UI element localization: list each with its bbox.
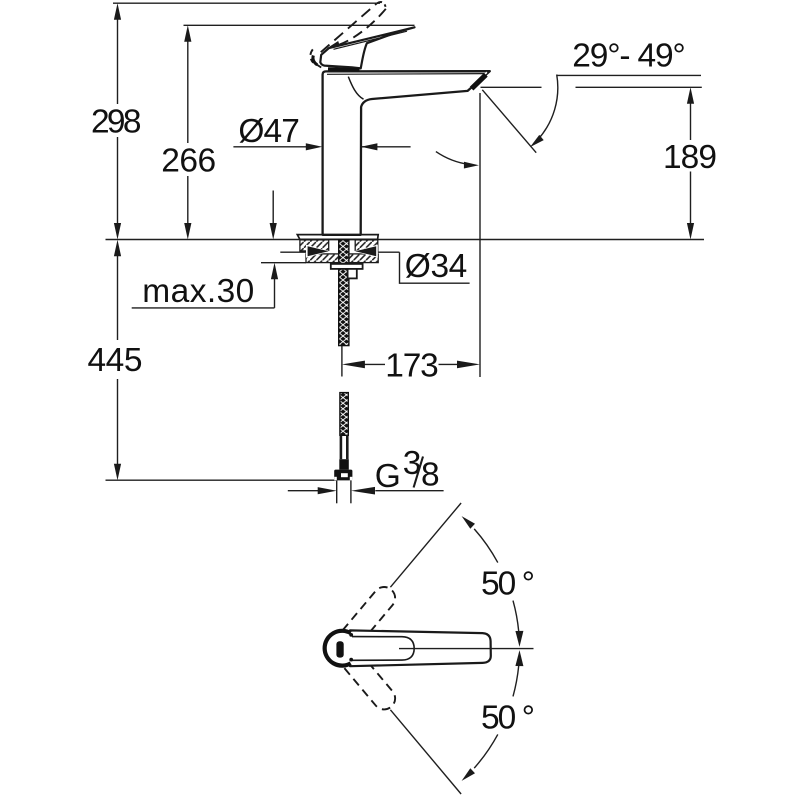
flexible hose braided lower [340, 393, 348, 436]
top view dashed lever down 50deg [343, 652, 400, 714]
water stream diagonal line [482, 90, 536, 153]
dim 445 vertical line [114, 240, 121, 481]
top view cap dots [349, 633, 353, 637]
angle arc lower 50deg [474, 734, 498, 768]
hose fitting nut [334, 470, 352, 481]
top view radius line lower [390, 710, 461, 794]
lever raised dashed tip [377, 2, 386, 7]
top view centerline [399, 648, 534, 650]
lever handle [320, 27, 414, 68]
svg-text:298: 298 [91, 103, 142, 140]
countertop deck line [106, 239, 705, 241]
dim max.30 upper arrow [270, 191, 277, 240]
top view handle cap fill [323, 629, 361, 667]
svg-text:29°- 49°: 29°- 49° [572, 38, 686, 75]
svg-text:Ø47: Ø47 [238, 113, 300, 150]
angle arc large arrowhead [530, 135, 544, 147]
dim 189 vertical line [687, 87, 694, 239]
dim 445 bottom extension line [106, 479, 337, 481]
lever motion arrowhead [327, 41, 340, 48]
dim Ø47 leader right [361, 143, 411, 150]
top view inner contour [352, 637, 414, 661]
body inner curve [348, 77, 363, 100]
deck hatch upper right [355, 240, 378, 251]
dim G3/8 line [288, 487, 444, 495]
angle arc small [436, 152, 470, 165]
top view radius line upper [390, 503, 461, 587]
dim max.30 lower arrow [271, 263, 278, 308]
svg-text:173: 173 [385, 347, 439, 384]
lever raised dashed knob [310, 49, 313, 62]
angle 29-49 underline [557, 74, 702, 76]
hose plain section [341, 435, 347, 459]
aerator outlet bar [472, 75, 486, 89]
top view lever body [350, 630, 491, 666]
lever raised dashed neck [346, 44, 354, 65]
svg-text:max.30: max.30 [142, 273, 254, 310]
deck hatch upper left [300, 240, 329, 251]
lever raised dashed edge [321, 4, 377, 53]
svg-text:50 °: 50 ° [481, 699, 535, 736]
top view handle cap bold ring [325, 631, 351, 666]
dim 266 vertical line [184, 25, 191, 239]
lever base shadow [328, 67, 360, 72]
svg-text:G: G [375, 458, 401, 495]
svg-text:189: 189 [663, 139, 717, 176]
connection tube G3/8 [337, 480, 351, 503]
spout top bevel line [327, 73, 487, 76]
dim Ø34 leader right [354, 245, 470, 284]
angle arc small arrowhead [464, 162, 479, 169]
dim max.30 underline [132, 307, 275, 309]
dim 266 top extension line [184, 24, 415, 26]
svg-text:8: 8 [421, 457, 440, 494]
faucet body outline [323, 71, 490, 235]
hose collar [339, 459, 349, 469]
svg-text:Ø34: Ø34 [405, 248, 468, 285]
threaded shank braided rod upper [339, 240, 349, 346]
svg-text:445: 445 [88, 342, 143, 379]
deck hatch lower left [306, 254, 339, 263]
angle arc upper 50deg [474, 529, 498, 563]
top view cap black bar [336, 641, 343, 657]
svg-text:3: 3 [403, 445, 422, 482]
lever top inner line [334, 31, 408, 49]
dim 298 vertical line [114, 3, 121, 239]
spout outlet level line [481, 86, 542, 88]
mounting washer [331, 264, 363, 269]
faucet axis extension line [341, 346, 343, 377]
angle arc large [537, 75, 557, 141]
mounting nut [348, 269, 357, 279]
faucet base plate [297, 235, 378, 240]
dim 173 line [342, 361, 480, 369]
lever motion dashed arc [339, 9, 386, 45]
aerator white gap [471, 72, 487, 87]
svg-text:50 °: 50 ° [481, 565, 535, 602]
top view dashed lever up 50deg [343, 583, 400, 645]
spout outlet vertical extension line [479, 93, 481, 377]
dim 298 top extension line [113, 2, 380, 4]
lever knob shadow [313, 55, 317, 65]
deck hatch lower right [349, 254, 378, 263]
dim Ø34 leader left [280, 245, 330, 258]
dim Ø47 leader left [233, 143, 322, 150]
deck underside extension line [261, 262, 306, 264]
svg-text:266: 266 [161, 142, 216, 179]
